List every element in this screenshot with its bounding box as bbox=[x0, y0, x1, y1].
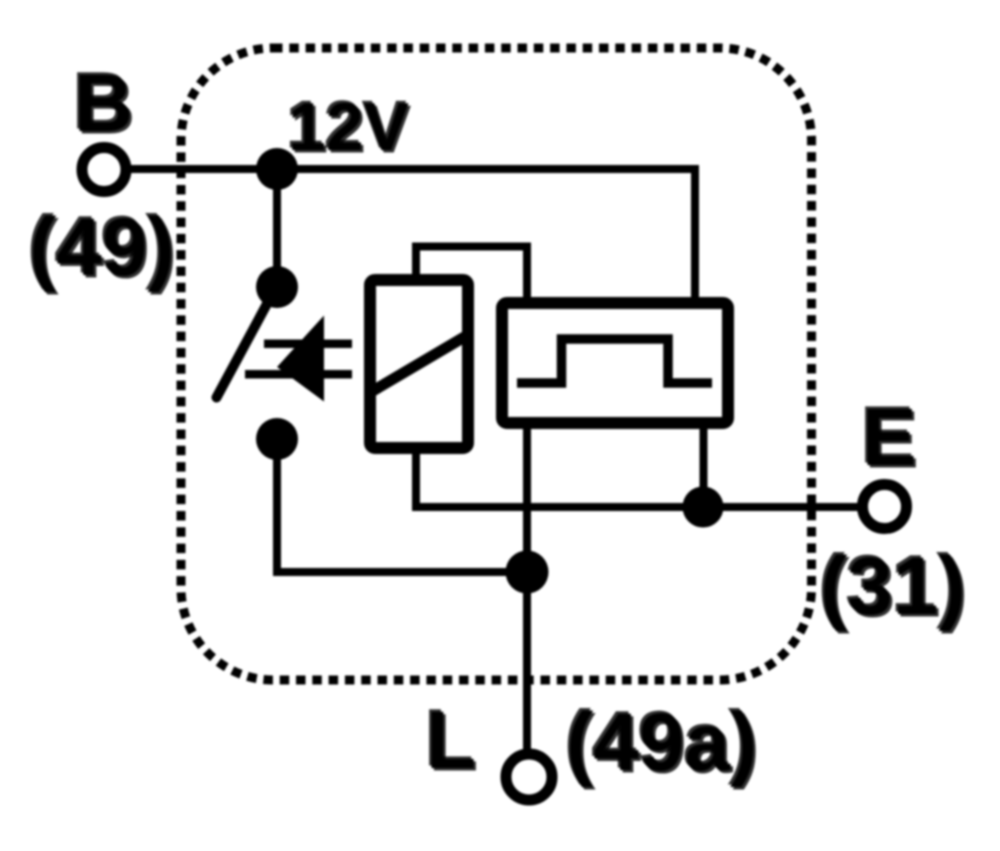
svg-text:(49): (49) bbox=[29, 202, 175, 293]
svg-text:B: B bbox=[74, 58, 133, 149]
svg-text:12V: 12V bbox=[288, 89, 409, 165]
svg-text:(49a): (49a) bbox=[566, 697, 757, 788]
svg-text:(31): (31) bbox=[820, 541, 966, 632]
svg-text:E: E bbox=[862, 392, 917, 483]
svg-text:L: L bbox=[426, 695, 476, 786]
